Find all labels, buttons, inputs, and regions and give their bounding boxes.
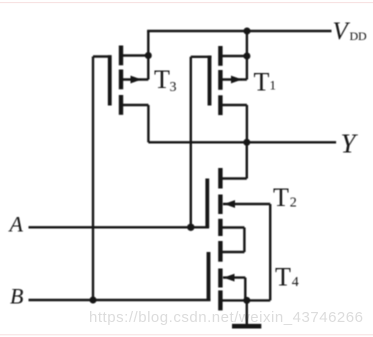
svg-text:3: 3 bbox=[170, 80, 177, 95]
transistor T1 channel bottom segment bbox=[218, 95, 222, 115]
wire T1 drain drop to Y bbox=[246, 105, 248, 142]
svg-text:DD: DD bbox=[350, 29, 367, 43]
ground bar bbox=[232, 324, 261, 329]
svg-text:2: 2 bbox=[290, 196, 297, 211]
wire VDD top rail bbox=[147, 30, 331, 32]
transistor T1 channel middle segment bbox=[218, 70, 222, 90]
svg-text:1: 1 bbox=[270, 78, 277, 93]
transistor T1 channel top segment bbox=[218, 46, 222, 66]
wire T2 drain lead bbox=[220, 177, 246, 179]
wire T1 gate lead bbox=[191, 56, 212, 58]
wire T2 source to T4 drain link bbox=[243, 228, 245, 253]
svg-text:B: B bbox=[10, 283, 23, 308]
transistor T2 channel middle segment bbox=[218, 195, 222, 215]
wire T1 bulk lead bbox=[220, 78, 247, 80]
wire T3 source lead bbox=[121, 54, 149, 56]
transistor T3 channel bottom segment bbox=[119, 95, 123, 115]
decorative bottom border line bbox=[0, 334, 373, 335]
svg-text:4: 4 bbox=[292, 275, 299, 290]
wire T1 source lead bbox=[220, 55, 247, 57]
wire T2 source lead bbox=[220, 226, 244, 228]
wire T4 bulk lead bbox=[223, 276, 245, 278]
transistor T4 channel top segment bbox=[218, 241, 222, 262]
wire T4 source lead to bulk bus bbox=[220, 299, 270, 301]
arrow T3 bulk (p-channel, pointing right) bbox=[131, 76, 142, 84]
transistor T3 gate bar bbox=[108, 55, 112, 105]
wire input B riser bbox=[92, 57, 94, 301]
svg-text:A: A bbox=[8, 211, 24, 236]
transistor T4 channel bottom segment bbox=[218, 290, 222, 310]
wire T3 drain drop to Y bbox=[147, 105, 149, 142]
wire output Y line bbox=[148, 141, 336, 143]
arrow T1 bulk (p-channel, pointing right) bbox=[231, 76, 242, 84]
transistor T4 channel middle segment bbox=[218, 269, 222, 288]
svg-text:V: V bbox=[333, 18, 351, 45]
junction dot node B bbox=[90, 297, 97, 304]
wire T1 drain lead bbox=[220, 104, 247, 106]
transistor T1 gate bar bbox=[208, 56, 212, 106]
svg-text:Y: Y bbox=[341, 128, 359, 158]
svg-text:T: T bbox=[254, 68, 270, 97]
wire T3 bulk lead bbox=[121, 78, 149, 80]
junction dot on VDD rail bbox=[244, 28, 251, 35]
arrow T4 bulk (n-channel, pointing left) bbox=[224, 274, 235, 282]
svg-text:T: T bbox=[275, 263, 291, 292]
junction dot ground node bbox=[243, 297, 250, 304]
svg-text:T: T bbox=[154, 65, 170, 94]
transistor T3 channel top segment bbox=[119, 46, 123, 66]
wire T4 drain lead bbox=[220, 251, 244, 253]
wire input A line bbox=[29, 226, 210, 228]
arrow T2 bulk (n-channel, pointing left) bbox=[224, 200, 235, 208]
transistor T4 gate bar bbox=[207, 252, 211, 300]
transistor T2 channel top segment bbox=[218, 168, 222, 189]
transistor T2 channel bottom segment bbox=[218, 219, 222, 236]
junction dot T1 source at rail drop bbox=[243, 53, 250, 60]
transistor T3 channel middle segment bbox=[119, 70, 123, 90]
wire Y drop to T2 drain bbox=[246, 142, 248, 178]
wire T3 gate lead bbox=[93, 55, 112, 57]
wire rail drop to T3 source/bulk bbox=[147, 31, 149, 80]
transistor T2 gate bar bbox=[205, 179, 209, 228]
svg-text:https://blog.csdn.net/weixin_4: https://blog.csdn.net/weixin_43746266 bbox=[89, 309, 363, 326]
decorative top border line bbox=[0, 2, 373, 3]
junction dot node Y bbox=[243, 139, 250, 146]
svg-text:T: T bbox=[273, 183, 289, 212]
wire T4 bulk drop to source node bbox=[244, 278, 246, 301]
wire rail drop to T1 source/bulk bbox=[246, 31, 248, 80]
wire input A riser bbox=[190, 57, 192, 228]
wire input B line bbox=[29, 299, 211, 301]
wire T2 bulk lead bbox=[223, 203, 270, 205]
junction dot node A bbox=[187, 224, 194, 231]
wire T3 drain lead bbox=[121, 104, 149, 106]
junction dot T3 source at rail drop bbox=[145, 52, 152, 59]
wire bulk bus vertical bbox=[269, 204, 271, 300]
wire ground stem bbox=[246, 300, 248, 324]
